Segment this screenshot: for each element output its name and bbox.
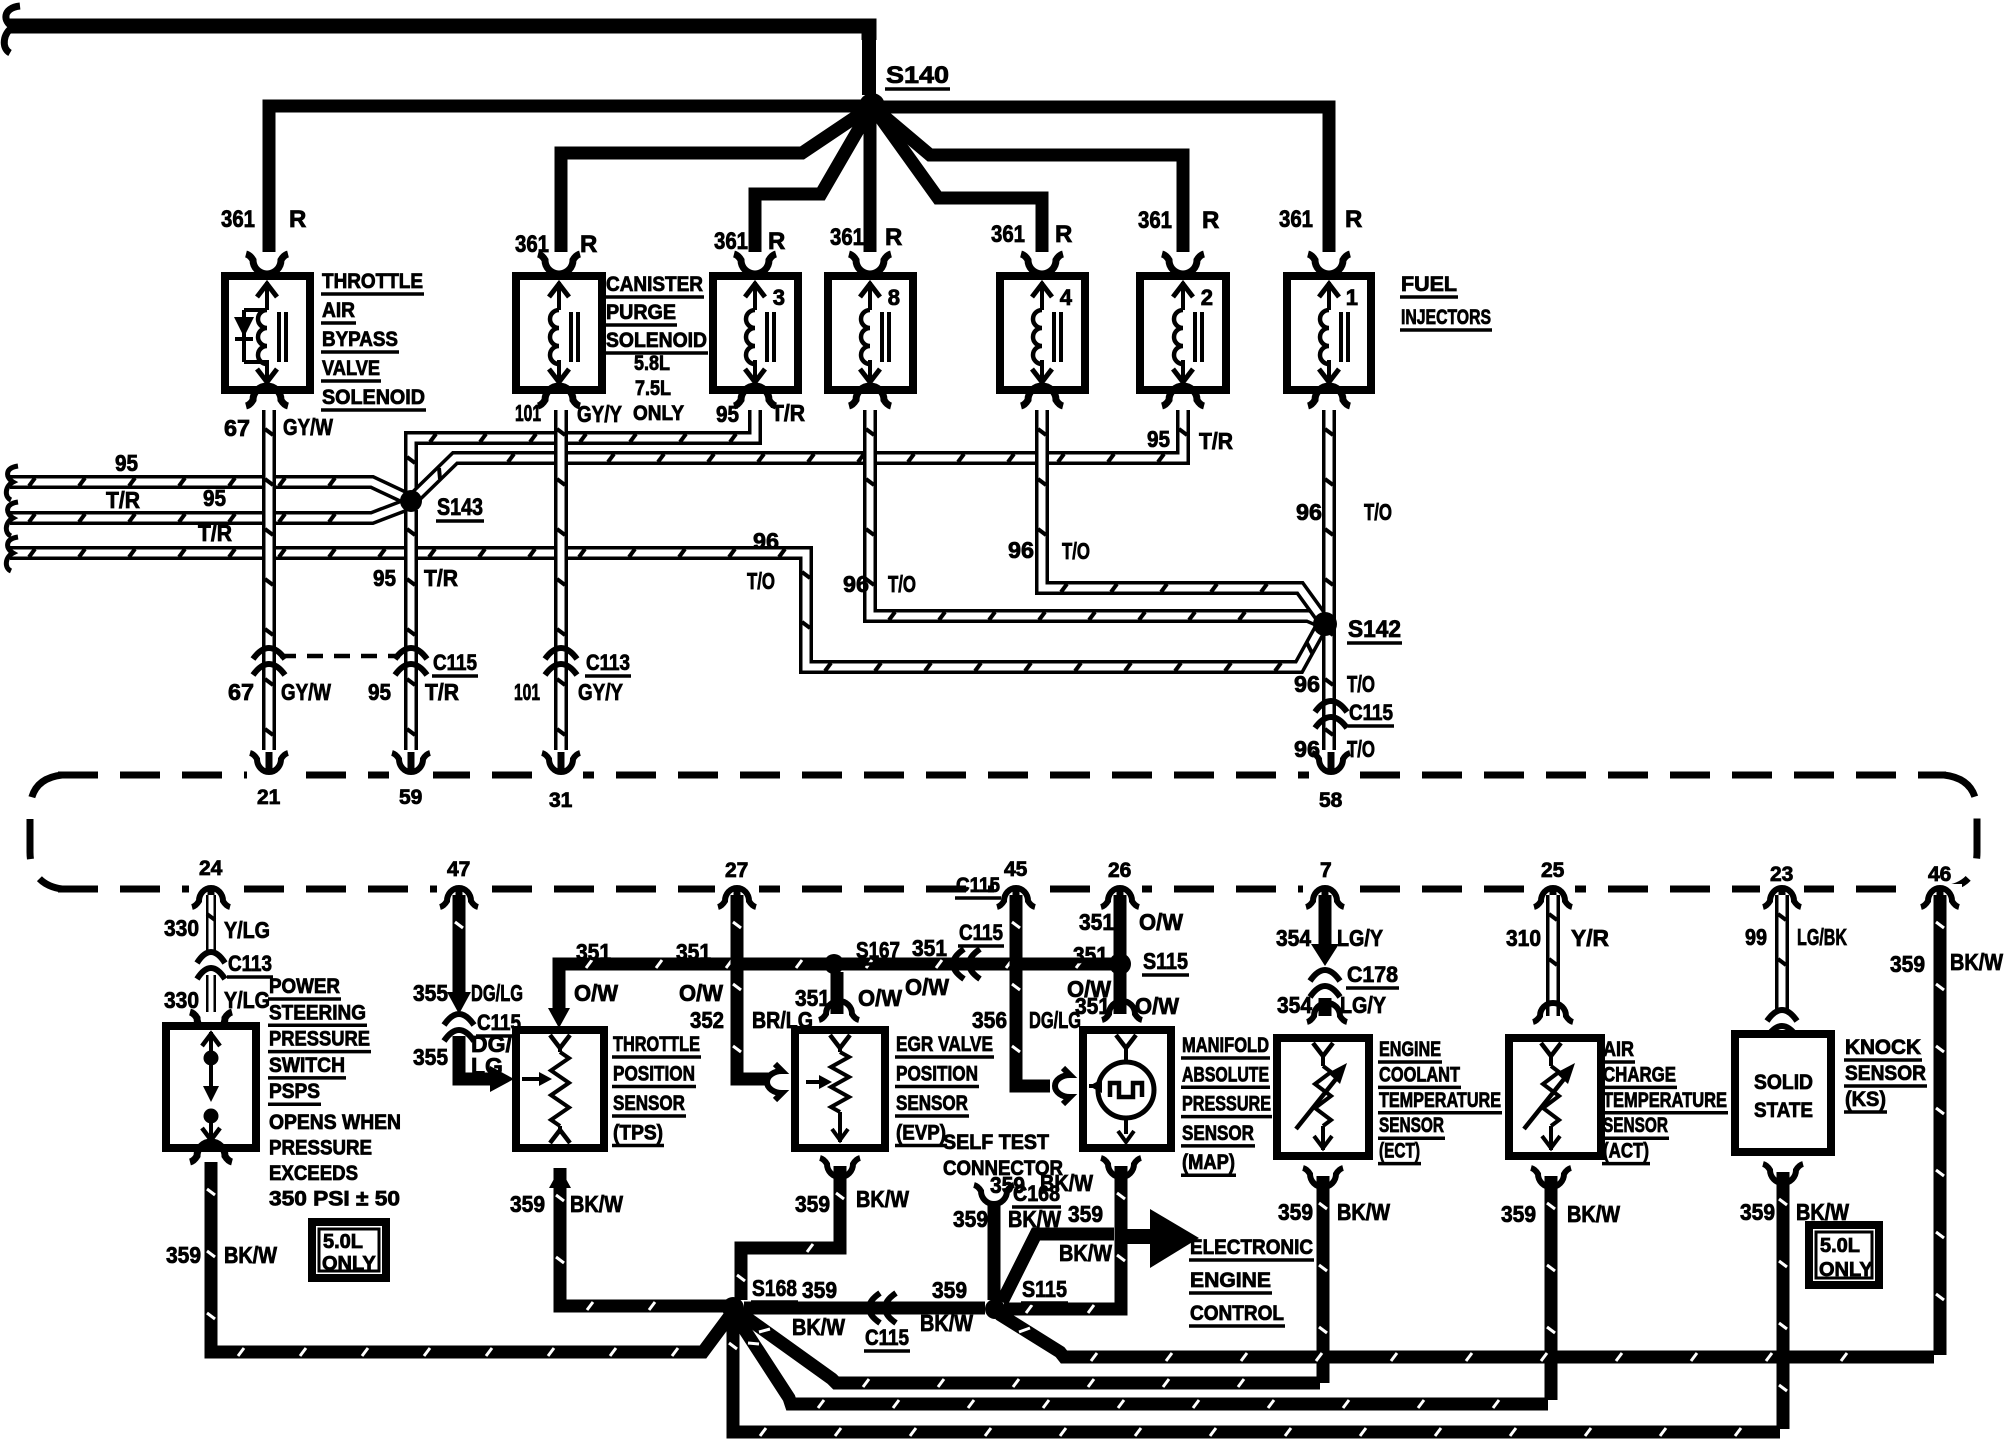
wire: 361 R to injector 1	[872, 107, 1329, 252]
svg-text:T/O: T/O	[1347, 736, 1375, 762]
svg-text:330: 330	[164, 915, 199, 941]
connector below ACT	[1531, 1168, 1571, 1187]
svg-text:INJECTORS: INJECTORS	[1401, 306, 1491, 329]
wire: 351 O/W from TPS to S167/S115 (sensor reference)	[559, 964, 1120, 1008]
component box: fuel injector 1	[1287, 276, 1371, 390]
svg-text:R: R	[289, 206, 306, 233]
svg-text:330: 330	[164, 987, 199, 1013]
splice S142	[1313, 612, 1337, 636]
svg-text:CANISTER: CANISTER	[606, 273, 703, 296]
connector below knock sensor	[1763, 1164, 1803, 1183]
svg-text:SOLENOID: SOLENOID	[606, 329, 707, 352]
svg-text:T/R: T/R	[771, 400, 805, 426]
svg-text:EGR VALVE: EGR VALVE	[896, 1033, 993, 1056]
connector above fuel injector 4	[1021, 254, 1063, 274]
wire: 330 Y/LG pin 24 to PSPS	[206, 895, 216, 950]
wire: 101 GY/Y from canister purge solenoid to pin 31	[554, 410, 568, 750]
svg-text:5.0L: 5.0L	[1820, 1235, 1860, 1257]
svg-text:O/W: O/W	[1135, 993, 1179, 1019]
svg-text:SELF TEST: SELF TEST	[943, 1131, 1049, 1154]
fork into EVP left	[767, 1064, 782, 1100]
svg-text:S143: S143	[437, 494, 483, 521]
svg-text:S167: S167	[856, 937, 900, 963]
ground bus 3: S168 to ACT	[737, 1318, 1548, 1404]
wire: 361 R to throttle air bypass solenoid	[269, 106, 868, 252]
note box 5.0L ONLY (left)	[312, 1222, 386, 1278]
svg-text:47: 47	[447, 858, 470, 881]
svg-text:351: 351	[912, 935, 947, 961]
connector above PSPS	[190, 1012, 232, 1032]
connector C113 on PSPS feed	[197, 952, 225, 963]
svg-text:BK/W: BK/W	[1950, 949, 2003, 975]
svg-text:101: 101	[515, 400, 541, 426]
splice S168	[722, 1297, 744, 1319]
off-page hook, power feed	[4, 6, 20, 53]
svg-text:T/R: T/R	[424, 565, 458, 591]
svg-text:25: 25	[1541, 859, 1565, 882]
svg-text:359: 359	[953, 1206, 988, 1232]
svg-text:354: 354	[1276, 925, 1311, 951]
component box: power steering pressure switch PSPS	[166, 1026, 256, 1148]
connector below fuel injector 8	[849, 386, 891, 406]
connector above fuel injector 1	[1308, 254, 1350, 274]
wire: 310 Y/R pin 25 to ACT	[1546, 895, 1560, 1016]
svg-text:C113: C113	[228, 951, 272, 976]
svg-text:BK/W: BK/W	[856, 1186, 909, 1212]
svg-text:95: 95	[373, 565, 396, 591]
svg-text:SOLENOID: SOLENOID	[322, 386, 425, 409]
wire: 359 BK/W branch S115 up to MAP return	[1002, 1234, 1114, 1302]
svg-text:LG: LG	[471, 1053, 503, 1079]
svg-text:O/W: O/W	[858, 985, 902, 1011]
svg-text:359: 359	[1278, 1199, 1313, 1225]
svg-text:46: 46	[1928, 863, 1951, 886]
svg-text:351: 351	[1079, 909, 1114, 935]
svg-text:24: 24	[199, 857, 223, 880]
connector below fuel injector 3	[734, 386, 776, 406]
wire: 359 BK/W EVP to splice S168	[741, 1166, 840, 1300]
svg-text:8: 8	[888, 285, 900, 310]
svg-text:21: 21	[257, 786, 281, 809]
svg-text:S115: S115	[1022, 1276, 1067, 1302]
dashed tie line between connectors	[280, 654, 400, 659]
svg-text:361: 361	[1138, 207, 1172, 234]
svg-text:SENSOR: SENSOR	[1379, 1114, 1444, 1137]
wire: 95 T/R from S143 down to EEC pin 59	[404, 510, 418, 750]
connector above throttle air bypass valve solenoid	[246, 254, 288, 274]
svg-text:359: 359	[802, 1277, 837, 1303]
wire: 361 R to injector 3	[755, 106, 872, 252]
svg-text:C113: C113	[586, 650, 630, 675]
svg-text:1: 1	[1346, 285, 1358, 310]
svg-text:T/R: T/R	[106, 487, 140, 513]
svg-text:O/W: O/W	[574, 980, 618, 1006]
svg-text:R: R	[1055, 221, 1072, 248]
svg-text:99: 99	[1745, 924, 1767, 950]
svg-text:STEERING: STEERING	[269, 1001, 366, 1024]
svg-text:67: 67	[228, 679, 254, 705]
svg-text:C115: C115	[959, 920, 1003, 945]
wire: 67 GY/W from throttle solenoid to pin 21	[262, 410, 276, 750]
svg-text:S168: S168	[752, 1275, 797, 1301]
svg-text:SENSOR: SENSOR	[1845, 1062, 1926, 1085]
component box: fuel injector 8	[828, 276, 913, 390]
svg-text:COOLANT: COOLANT	[1379, 1063, 1460, 1086]
svg-text:351: 351	[676, 939, 711, 965]
svg-text:BK/W: BK/W	[920, 1310, 973, 1336]
svg-text:96: 96	[753, 528, 779, 554]
svg-text:2: 2	[1201, 285, 1213, 310]
wire: 361 R to injector 4	[872, 106, 1042, 252]
connector C115 on injector return	[1315, 701, 1347, 712]
svg-text:ELECTRONIC: ELECTRONIC	[1190, 1236, 1313, 1259]
svg-text:359: 359	[795, 1191, 830, 1217]
svg-text:AIR: AIR	[322, 299, 355, 322]
wire: 99 LG/BK pin 23 to knock sensor	[1775, 895, 1789, 1012]
svg-text:T/O: T/O	[888, 571, 916, 597]
svg-text:ENGINE: ENGINE	[1379, 1038, 1441, 1061]
svg-text:GY/W: GY/W	[281, 679, 331, 705]
ground bus 4: S168 to knock sensor	[733, 1316, 1780, 1432]
svg-text:ABSOLUTE: ABSOLUTE	[1182, 1063, 1269, 1086]
svg-text:354: 354	[1277, 992, 1312, 1018]
svg-text:352: 352	[690, 1007, 724, 1033]
off-page hook	[6, 537, 18, 571]
svg-text:96: 96	[1296, 499, 1322, 525]
component box: air charge temperature sensor ACT	[1509, 1038, 1601, 1156]
svg-text:(EVP): (EVP)	[896, 1122, 946, 1145]
svg-text:(MAP): (MAP)	[1182, 1151, 1235, 1174]
wire: 361 R to canister purge solenoid	[561, 106, 872, 252]
svg-text:361: 361	[221, 206, 255, 233]
EEC pin stubs bottom row	[192, 888, 230, 907]
svg-text:ONLY: ONLY	[1819, 1259, 1873, 1281]
svg-text:S142: S142	[1348, 616, 1401, 643]
svg-text:(KS): (KS)	[1845, 1088, 1886, 1111]
svg-text:ONLY: ONLY	[322, 1253, 376, 1275]
svg-text:SENSOR: SENSOR	[1182, 1122, 1254, 1145]
component box: manifold absolute pressure sensor MAP	[1083, 1030, 1171, 1148]
svg-text:361: 361	[830, 224, 864, 251]
connector above fuel injector 8	[849, 254, 891, 274]
svg-text:GY/Y: GY/Y	[578, 679, 623, 705]
svg-text:BK/W: BK/W	[1337, 1199, 1390, 1225]
connector above fuel injector 2	[1162, 254, 1204, 274]
svg-text:359: 359	[1890, 951, 1925, 977]
component box: fuel injector 4	[1000, 276, 1085, 390]
ground bus 1: S115 to pin 46	[999, 1314, 1934, 1357]
svg-text:R: R	[1345, 206, 1362, 233]
svg-text:(ACT): (ACT)	[1603, 1140, 1649, 1163]
svg-text:STATE: STATE	[1754, 1099, 1813, 1122]
connector C115 on TPS feed	[444, 1014, 474, 1025]
splice S167	[824, 954, 844, 974]
svg-text:58: 58	[1319, 789, 1343, 812]
connector below fuel injector 2	[1162, 386, 1204, 406]
svg-text:CONNECTOR: CONNECTOR	[943, 1157, 1063, 1180]
svg-text:359: 359	[1068, 1201, 1103, 1227]
svg-text:C115: C115	[1349, 700, 1393, 725]
wire: 95 T/R bus (upper, from off-page)	[10, 482, 406, 498]
connector below PSPS	[190, 1142, 232, 1162]
wire: 95 T/R bus (second, from off-page)	[10, 505, 406, 518]
svg-text:96: 96	[843, 571, 869, 597]
ground bus 2: S168 to ECT	[740, 1313, 1320, 1383]
note box 5.0L ONLY (right)	[1809, 1225, 1879, 1285]
svg-text:351: 351	[576, 939, 611, 965]
svg-text:BK/W: BK/W	[224, 1242, 277, 1268]
svg-text:PRESSURE: PRESSURE	[269, 1137, 372, 1160]
svg-text:359: 359	[1501, 1201, 1536, 1227]
svg-text:359: 359	[932, 1277, 967, 1303]
svg-text:O/W: O/W	[905, 974, 949, 1000]
off-page hook	[6, 502, 18, 536]
svg-text:T/O: T/O	[1347, 671, 1375, 697]
svg-text:96: 96	[1008, 537, 1034, 563]
connector pair above knock sensor	[1767, 1010, 1797, 1021]
wire: 351 O/W pin 26 to splice S115	[1114, 895, 1127, 960]
svg-text:T/R: T/R	[198, 520, 232, 546]
svg-text:PRESSURE: PRESSURE	[269, 1028, 370, 1051]
svg-text:TEMPERATURE: TEMPERATURE	[1379, 1089, 1501, 1112]
svg-text:LG/Y: LG/Y	[1340, 992, 1386, 1018]
svg-text:S: S	[1153, 1225, 1172, 1256]
svg-text:S140: S140	[886, 62, 949, 89]
component box: knock sensor solid state	[1735, 1034, 1831, 1152]
svg-text:359: 359	[510, 1191, 545, 1217]
wire: 351 O/W from S167 to EVP	[831, 972, 844, 1014]
svg-text:LG/BK: LG/BK	[1797, 924, 1847, 950]
svg-text:26: 26	[1108, 859, 1131, 882]
svg-text:ENGINE: ENGINE	[1190, 1269, 1271, 1292]
wire: 356 DG/LG pin 45 to MAP	[1016, 895, 1050, 1086]
svg-text:VALVE: VALVE	[322, 357, 380, 380]
svg-text:45: 45	[1004, 858, 1028, 881]
svg-text:SENSOR: SENSOR	[613, 1092, 685, 1115]
svg-text:95: 95	[203, 485, 226, 511]
wire: 361 R to injector 2	[872, 106, 1183, 252]
component box: engine coolant temperature sensor ECT	[1277, 1038, 1369, 1156]
svg-text:101: 101	[514, 679, 540, 705]
wire: 359 BK/W knock sensor to ground bus	[1777, 1172, 1790, 1429]
component box: fuel injector 3	[713, 276, 798, 390]
wire: 351 O/W S115 to MAP	[1114, 968, 1127, 1014]
svg-text:310: 310	[1506, 925, 1541, 951]
svg-text:GY/Y: GY/Y	[577, 401, 622, 427]
wire: 359 BK/W MAP down to splice S115	[1004, 1166, 1121, 1309]
svg-text:LG/Y: LG/Y	[1337, 925, 1383, 951]
svg-text:23: 23	[1770, 863, 1793, 886]
svg-text:POWER: POWER	[269, 975, 340, 998]
svg-text:7.5L: 7.5L	[635, 377, 671, 400]
svg-text:DG/LG: DG/LG	[1029, 1007, 1081, 1033]
wire: 359 BK/W S168 to S115 via C115	[744, 1302, 985, 1315]
svg-text:350 PSI ± 50: 350 PSI ± 50	[269, 1188, 400, 1211]
in-line connector C113	[545, 648, 577, 659]
svg-text:SENSOR: SENSOR	[1603, 1114, 1668, 1137]
svg-text:361: 361	[714, 228, 748, 255]
svg-text:R: R	[768, 228, 785, 255]
wire: 359 BK/W pin 46 ground return	[1934, 895, 1947, 1355]
wire: 359 BK/W TPS to splice S168	[560, 1168, 727, 1306]
connector above fuel injector 3	[734, 254, 776, 274]
svg-text:R: R	[580, 231, 597, 258]
svg-text:SENSOR: SENSOR	[896, 1092, 968, 1115]
svg-text:ONLY: ONLY	[633, 402, 684, 425]
svg-text:O/W: O/W	[1139, 909, 1183, 935]
svg-text:C178: C178	[1347, 962, 1398, 987]
component box: EGR valve position sensor EVP	[795, 1030, 885, 1148]
connector C115 on 351 wire	[953, 949, 964, 979]
svg-text:Y/LG: Y/LG	[224, 917, 270, 943]
svg-text:359: 359	[1740, 1199, 1775, 1225]
svg-text:TEMPERATURE: TEMPERATURE	[1603, 1089, 1727, 1112]
svg-text:THROTTLE: THROTTLE	[613, 1033, 700, 1056]
svg-text:5.8L: 5.8L	[634, 352, 670, 375]
svg-text:5.0L: 5.0L	[323, 1231, 363, 1253]
svg-text:CONTROL: CONTROL	[1190, 1302, 1284, 1325]
svg-text:CHARGE: CHARGE	[1603, 1063, 1676, 1086]
svg-text:OPENS WHEN: OPENS WHEN	[269, 1111, 401, 1134]
svg-text:T/O: T/O	[747, 568, 775, 594]
arrow to electronic engine control	[1124, 1229, 1150, 1244]
svg-text:R: R	[1202, 207, 1219, 234]
svg-text:C115: C115	[865, 1325, 909, 1350]
svg-text:95: 95	[1147, 426, 1170, 452]
svg-text:GY/W: GY/W	[283, 414, 333, 440]
svg-text:POSITION: POSITION	[613, 1063, 695, 1086]
splice S143	[400, 490, 422, 512]
svg-text:361: 361	[991, 221, 1025, 248]
wire: 355 DG/LG pin 47 to TPS	[453, 895, 466, 996]
wire: 96 T/O injector 4 to splice S142	[1042, 410, 1321, 617]
connector above canister purge solenoid	[538, 254, 580, 274]
svg-text:T/R: T/R	[1199, 428, 1233, 454]
wire: 359 BK/W ACT to ground bus	[1545, 1176, 1558, 1400]
wire: 95 T/R from injector 2 to splice S143	[415, 410, 1183, 497]
svg-text:59: 59	[399, 786, 422, 809]
svg-text:C115: C115	[956, 874, 1000, 897]
svg-text:27: 27	[725, 859, 748, 882]
connector below fuel injector 4	[1021, 386, 1063, 406]
svg-text:355: 355	[413, 1044, 448, 1070]
svg-text:356: 356	[972, 1007, 1007, 1033]
svg-text:95: 95	[368, 679, 391, 705]
svg-text:3: 3	[773, 285, 785, 310]
svg-text:BK/W: BK/W	[792, 1314, 845, 1340]
svg-text:359: 359	[166, 1242, 201, 1268]
svg-text:MANIFOLD: MANIFOLD	[1182, 1034, 1269, 1057]
svg-text:DG/LG: DG/LG	[471, 980, 523, 1006]
connector C178	[1310, 970, 1340, 981]
svg-text:(TPS): (TPS)	[613, 1122, 663, 1145]
svg-text:PURGE: PURGE	[606, 301, 676, 324]
svg-text:BYPASS: BYPASS	[322, 328, 398, 351]
splice S115 (359 ground circuit)	[985, 1299, 1005, 1319]
wire: 359 BK/W C168 to S115	[988, 1205, 1001, 1300]
component box: throttle air bypass valve solenoid	[225, 276, 310, 390]
svg-text:EXCEEDS: EXCEEDS	[269, 1162, 358, 1185]
wire: main power feed bus (top)	[8, 26, 869, 40]
component box: throttle position sensor TPS	[516, 1030, 604, 1148]
wire: 96 T/O bus (third, from off-page) to splice S142	[10, 553, 1320, 667]
svg-text:95: 95	[115, 450, 138, 476]
svg-text:T/O: T/O	[1364, 499, 1392, 525]
wire: 359 BK/W ECT to ground bus	[1317, 1176, 1330, 1383]
svg-text:T/R: T/R	[425, 679, 459, 705]
svg-text:351: 351	[1073, 942, 1108, 968]
wire: 352 BR/LG pin 27 to EVP wiper	[737, 895, 770, 1079]
wire: 96 T/O injector 8 to splice S142	[870, 410, 1322, 622]
svg-text:96: 96	[1294, 671, 1320, 697]
svg-text:PRESSURE: PRESSURE	[1182, 1093, 1271, 1116]
svg-text:POSITION: POSITION	[896, 1063, 978, 1086]
wire: 361 R to injector 8	[864, 106, 877, 252]
svg-text:BK/W: BK/W	[1567, 1201, 1620, 1227]
svg-text:BK/W: BK/W	[1008, 1206, 1061, 1232]
component box: fuel injector 2	[1140, 276, 1226, 390]
svg-text:BK/W: BK/W	[570, 1191, 623, 1217]
svg-text:67: 67	[224, 415, 250, 441]
svg-text:S115: S115	[1143, 948, 1188, 974]
connector below fuel injector 1	[1308, 386, 1350, 406]
svg-text:R: R	[885, 224, 902, 251]
splice S115 (351 circuit)	[1109, 953, 1131, 975]
svg-text:PSPS: PSPS	[269, 1080, 320, 1103]
svg-text:C115: C115	[433, 650, 477, 675]
svg-text:355: 355	[413, 980, 448, 1006]
connector below ECT	[1303, 1168, 1343, 1187]
in-line connector C115 (left, pins 21/59)	[253, 648, 285, 659]
svg-text:4: 4	[1060, 285, 1073, 310]
EEC pin stubs top row: 21 59 31 58	[250, 753, 288, 772]
svg-text:95: 95	[716, 401, 739, 427]
svg-text:361: 361	[1279, 206, 1313, 233]
wire: 95 T/R from injector 3 to splice S143	[411, 410, 755, 492]
wire: 96 T/O injector 1 through S142 to pin 58	[1322, 410, 1336, 750]
svg-text:Y/R: Y/R	[1571, 925, 1609, 951]
svg-text:O/W: O/W	[679, 980, 723, 1006]
svg-text:KNOCK: KNOCK	[1845, 1036, 1921, 1059]
svg-text:AIR: AIR	[1603, 1038, 1634, 1061]
component box: canister purge solenoid	[516, 276, 602, 390]
svg-text:SWITCH: SWITCH	[269, 1054, 345, 1077]
svg-text:T/O: T/O	[1062, 538, 1090, 564]
svg-text:THROTTLE: THROTTLE	[322, 270, 423, 293]
svg-text:SOLID: SOLID	[1754, 1071, 1813, 1094]
svg-text:BK/W: BK/W	[1059, 1240, 1112, 1266]
svg-text:FUEL: FUEL	[1401, 273, 1457, 296]
wire: 354 LG/Y pin 7 to ECT	[1319, 895, 1332, 948]
off-page hook	[6, 466, 18, 500]
svg-text:31: 31	[549, 789, 573, 812]
connector below throttle air bypass valve solenoid	[246, 386, 288, 406]
connector below canister purge solenoid	[538, 386, 580, 406]
wire: 359 BK/W PSPS to splice S168	[211, 1162, 729, 1352]
svg-text:7: 7	[1320, 859, 1332, 882]
EEC module boundary (dashed)	[30, 775, 1977, 889]
fork into MAP left	[1055, 1068, 1070, 1104]
svg-text:(ECT): (ECT)	[1379, 1140, 1420, 1163]
svg-text:C168: C168	[1013, 1181, 1060, 1206]
